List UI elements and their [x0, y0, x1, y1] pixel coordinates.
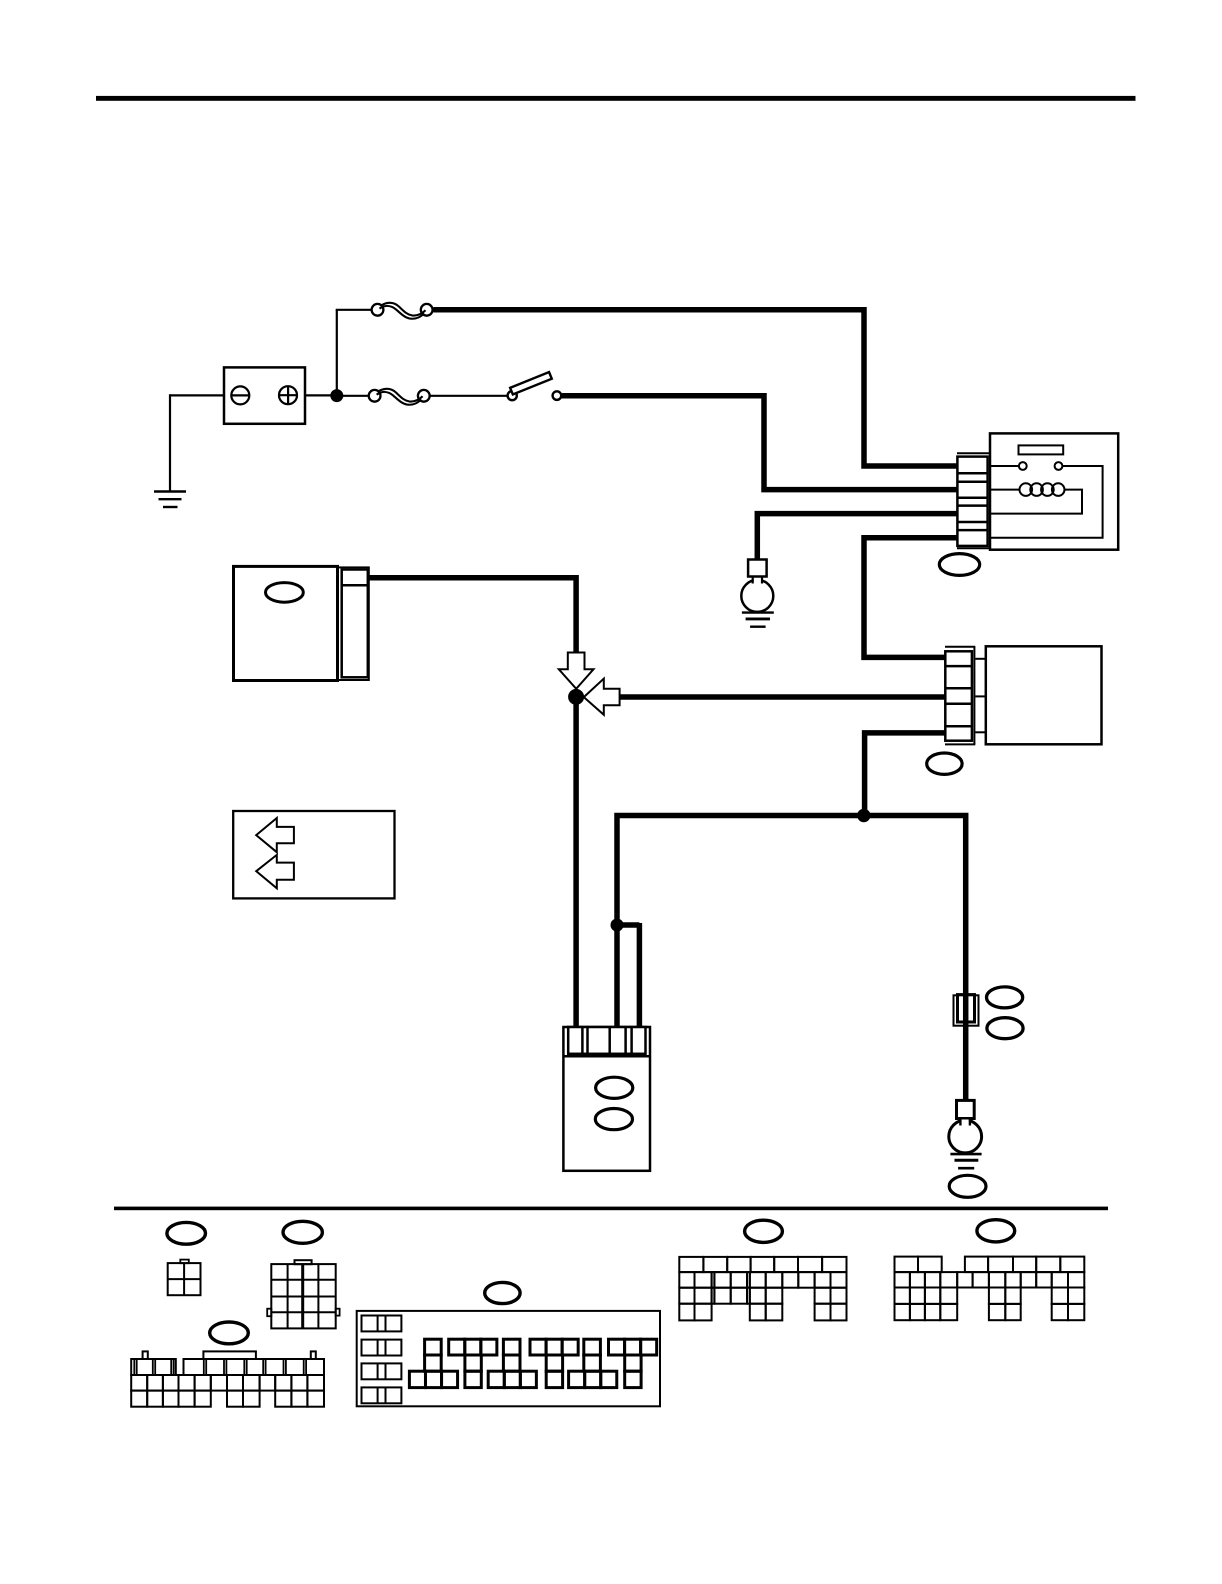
wire battery negative to ground — [170, 394, 224, 491]
node C junction dot — [857, 809, 870, 822]
legend arrow 1 (left) — [256, 818, 294, 852]
bulb E1 (lamp with socket) — [741, 560, 773, 612]
wire relay terminal 4 to motor connector terminal 1 — [864, 538, 957, 658]
connector view A (2x2) — [168, 1260, 201, 1296]
wire F1 to relay connector terminal 1 — [433, 310, 957, 466]
ground G3 under bulb E2 — [950, 1154, 981, 1168]
grommet ellipse below motor connector — [927, 753, 962, 774]
grommet ellipses beside connector J1 — [987, 987, 1023, 1008]
control unit S1 connector — [338, 567, 369, 680]
connector view F (bridge shape) — [895, 1257, 1085, 1321]
relay R1 label plate — [1019, 445, 1064, 454]
connector view B (4x4) — [267, 1260, 339, 1328]
grommet ellipse f — [977, 1220, 1015, 1242]
wire battery positive to node A — [305, 394, 340, 396]
lamp unit box — [563, 1027, 650, 1171]
grommet ellipse below ground G3 — [949, 1175, 986, 1197]
grommet ellipse a — [167, 1222, 206, 1244]
relay R1 coil wire to terminal 3 — [990, 490, 1082, 514]
inline connector J1 on right drop — [954, 995, 979, 1026]
fuse F2 — [369, 389, 430, 405]
wire node D jog to lamp unit — [617, 923, 639, 1028]
relay R1 contact wire to terminal 4 — [990, 466, 1103, 538]
control unit S1 box — [234, 566, 338, 680]
bus wire node C horizontal — [617, 816, 966, 1101]
connector view D (large box) — [357, 1311, 660, 1406]
switch SW1 (open) — [508, 372, 562, 400]
wire F2 to switch SW1 — [430, 395, 508, 397]
wire node A to fuse F2 — [340, 395, 369, 397]
connector view E (bridge shape) — [679, 1257, 846, 1320]
wire relay terminal 3 to bulb E1 — [757, 514, 957, 561]
relay R1 contact pins — [990, 462, 1062, 470]
ground G2 under bulb E1 — [742, 613, 774, 627]
node B junction dot — [568, 689, 584, 705]
lamp unit grommet ellipse 2 — [595, 1109, 632, 1130]
legend box with flow arrows — [233, 811, 394, 898]
flow arrow (down) into node B — [559, 653, 594, 689]
wire S1 connector to node B — [369, 578, 576, 654]
lamp unit connector strip — [568, 1027, 645, 1054]
grommet ellipse c — [210, 1322, 249, 1344]
fuse F1 — [372, 303, 433, 319]
wire motor terminal 3 to node C — [865, 733, 946, 816]
ground G1 — [154, 492, 186, 508]
grommet ellipse e — [745, 1220, 783, 1242]
node A junction dot — [330, 389, 343, 402]
control unit S1 grommet ellipse — [266, 583, 304, 603]
wire node B down to lamp unit — [573, 703, 579, 1028]
node D junction dot — [611, 919, 624, 932]
lamp unit grommet ellipse 1 — [596, 1077, 633, 1098]
legend arrow 2 (left) — [256, 855, 294, 888]
connector to relay (4-terminal) — [957, 453, 990, 548]
bottom section separator line — [114, 1207, 1108, 1211]
grommet ellipse b — [283, 1221, 322, 1243]
page header rule — [96, 96, 1136, 101]
grommet ellipse below relay connector — [939, 554, 979, 576]
motor connector (3-terminal) — [945, 647, 986, 745]
motor M1 box — [986, 646, 1102, 744]
battery B1 — [224, 367, 305, 423]
relay R1 coil — [990, 483, 1064, 496]
wire SW1 to relay connector terminal 2 — [561, 396, 957, 490]
bulb E2 (lamp with socket) — [949, 1100, 982, 1153]
grommet ellipse d — [485, 1282, 520, 1303]
flow arrow (left) into node B — [584, 679, 620, 715]
wire node A up to fuse F1 — [336, 310, 372, 396]
wire node B to motor connector terminal 2 — [620, 694, 946, 700]
connector view C (long multi-row) — [131, 1351, 324, 1406]
relay R1 box — [990, 433, 1118, 549]
